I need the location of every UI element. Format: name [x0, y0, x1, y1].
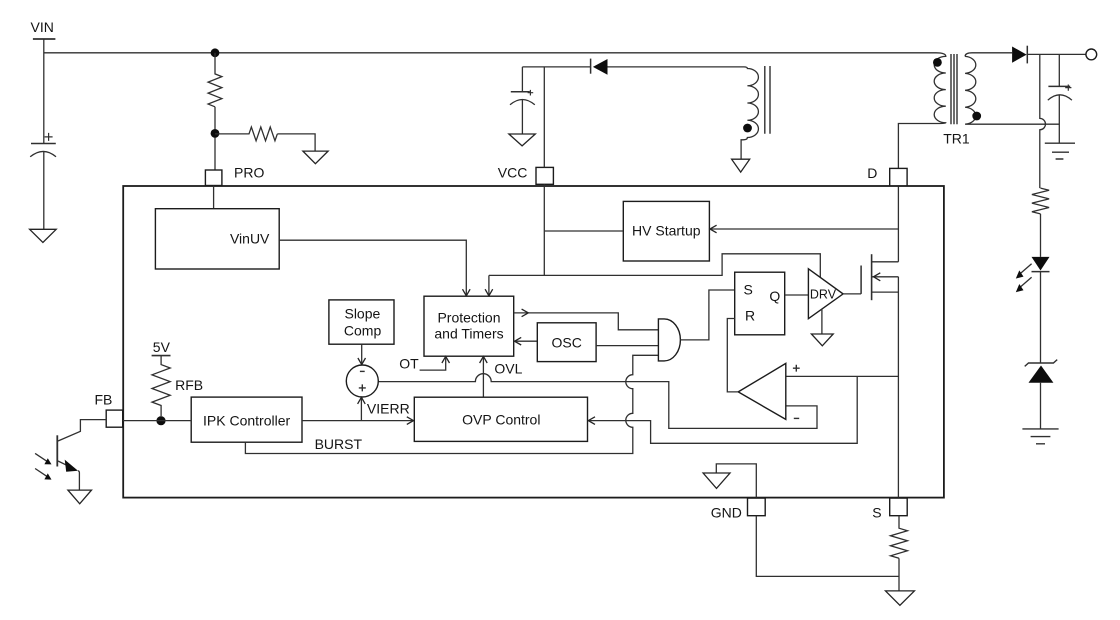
diode D4 zener [1025, 360, 1058, 383]
svg-text:Protection: Protection [437, 310, 500, 326]
wire drain riser to D pin [897, 186, 899, 262]
junction PRO node [211, 129, 220, 138]
LED D3 optocoupler emitter [1016, 257, 1050, 292]
resistor R1 (VIN divider upper) [208, 53, 222, 107]
wire OSC to Protection (arrow) [515, 337, 538, 345]
block Slope Comp [329, 300, 394, 344]
svg-text:R: R [745, 307, 755, 323]
wire VIN terminal to capacitor [43, 39, 45, 144]
svg-text:RFB: RFB [175, 377, 203, 393]
svg-text:5V: 5V [153, 339, 171, 355]
capacitor C1 input bulk (polarized) [30, 133, 56, 157]
node 5V terminal [152, 339, 171, 355]
comparator U4 [738, 363, 800, 419]
core aux transformer [765, 66, 770, 134]
core TR1 [951, 54, 957, 124]
capacitor C3 output (polarized) [1048, 54, 1072, 100]
svg-text:S: S [744, 281, 753, 297]
wire LED to zener [1040, 272, 1042, 363]
svg-text:S: S [872, 505, 881, 521]
block VinUV U1 [155, 209, 279, 269]
pin D [867, 165, 907, 186]
diode D1 output rectifier [1012, 46, 1027, 64]
ground below aux winding [732, 159, 750, 172]
wire FB pin to IPK Controller [123, 420, 192, 422]
wire Q output to DRV [785, 294, 809, 296]
svg-text:GND: GND [711, 505, 742, 521]
ground internal GND [703, 473, 730, 488]
wire BURST from IPK to AND gate (two hops) [245, 355, 658, 453]
wire IPK Controller to OVP Control (arrow) [302, 417, 414, 425]
ground below Q2 [68, 490, 92, 504]
svg-text:OVL: OVL [494, 361, 522, 377]
block IPK Controller [191, 397, 302, 442]
wire VCC pin riser [543, 67, 545, 276]
wire comparator output to latch R input [727, 319, 737, 392]
earth ground below zener [1022, 429, 1058, 444]
summing junction circle [346, 365, 378, 397]
wire source riser to S pin [897, 277, 899, 498]
node VIERR (arrow into summing circle) [358, 397, 410, 420]
transistor Q1 MOSFET gate wire [843, 293, 861, 295]
light arrows into Q2 [35, 453, 51, 479]
svg-text:VinUV: VinUV [230, 230, 270, 246]
wire C2 to ground [521, 100, 523, 134]
wire VCC rail to Protection (arrow) [485, 275, 493, 295]
wire R4 to opto LED [1040, 214, 1042, 257]
wire diode to output terminal [1027, 53, 1086, 55]
wire C3 to earth ground [1058, 95, 1060, 143]
ground below C2 [509, 134, 535, 146]
transistor Q1 MOSFET [861, 254, 898, 300]
IC block boundary box [123, 186, 944, 498]
svg-text:VIN: VIN [31, 19, 54, 35]
wire C1 to ground [43, 152, 45, 230]
inductor aux winding TR1 bias [741, 67, 758, 159]
ground below DRV [811, 334, 833, 346]
capacitor C2 VCC (polarized) [510, 67, 535, 105]
wire DRV to ground [821, 309, 823, 334]
wire GND pin to sense resistor node [756, 516, 899, 577]
wire D line to HV Startup (arrow) [710, 225, 899, 233]
pin FB [95, 391, 123, 427]
svg-text:VCC: VCC [498, 164, 528, 180]
wire VinUV to Protection (arrow) [279, 240, 470, 296]
resistor R4 feedback [1032, 188, 1049, 214]
wire R2 to ground [277, 134, 315, 151]
wire summing output to comparator minus (hop over OVL) [378, 374, 817, 429]
pin S [872, 498, 907, 520]
transistor Q2 opto phototransistor [57, 435, 78, 472]
node OT input [399, 355, 449, 371]
wire diode to aux winding [608, 66, 745, 68]
svg-text:TR1: TR1 [943, 130, 970, 146]
wire current sense to comparator plus [786, 375, 899, 377]
node output terminal circle [1086, 49, 1097, 60]
svg-text:HV Startup: HV Startup [632, 222, 701, 238]
wire VCC internal rail to DRV [489, 254, 820, 277]
block OVP Control [414, 397, 587, 441]
diode D2 VCC rectifier [591, 59, 608, 75]
wire OSC to AND gate [596, 345, 658, 347]
wire output feedback branch (hop over secondary) [1040, 54, 1046, 188]
svg-text:D: D [867, 165, 877, 181]
wire VIN rail [44, 52, 936, 54]
pin VCC [498, 164, 554, 184]
wire FB to opto transistor collector [58, 420, 106, 441]
buffer DRV [808, 269, 843, 319]
wire Q2 emitter to ground [78, 471, 79, 490]
svg-text:OT: OT [399, 355, 419, 371]
wire R1 to PRO pin [214, 107, 216, 170]
ground below R2 [303, 151, 328, 164]
junction VIN rail node [211, 48, 220, 57]
block Protection and Timers [424, 296, 514, 356]
wire VCC riser to HV Startup [544, 230, 623, 232]
node VIN terminal [31, 19, 56, 39]
wire sense line to OVP Control right input (arrow) [588, 376, 857, 443]
resistor RFB [152, 356, 203, 416]
earth ground below C3 [1045, 143, 1075, 159]
svg-text:Comp: Comp [344, 323, 382, 339]
transformer TR1 secondary winding [965, 53, 1059, 124]
polarity dot TR1 primary [933, 58, 942, 67]
svg-text:Slope: Slope [344, 305, 380, 321]
wire VCC aux rail [522, 66, 590, 68]
wire AND output to latch S input [680, 290, 734, 340]
svg-text:DRV: DRV [810, 288, 837, 302]
wire internal GND to ground symbol [716, 464, 756, 498]
polarity dot aux winding [743, 124, 752, 133]
svg-text:FB: FB [95, 391, 113, 407]
wire Protection to AND gate top input (arrow) [514, 309, 659, 330]
resistor R3 sense [891, 516, 908, 559]
svg-text:VIERR: VIERR [367, 400, 410, 416]
wire zener to earth ground [1040, 383, 1042, 429]
svg-text:PRO: PRO [234, 165, 264, 181]
transformer TR1 primary winding [898, 53, 945, 169]
svg-text:IPK Controller: IPK Controller [203, 412, 290, 428]
polarity dot TR1 secondary [972, 112, 981, 121]
block HV Startup [623, 201, 709, 261]
wire Slope Comp to summing circle (arrow) [358, 344, 366, 364]
svg-text:OVP Control: OVP Control [462, 411, 540, 427]
resistor R2 (PRO to ground) [215, 127, 277, 141]
svg-text:and Timers: and Timers [434, 326, 503, 342]
node OVL riser (arrow into Protection) [480, 356, 523, 397]
wire PRO pin to VinUV [213, 186, 215, 209]
svg-text:Q: Q [769, 288, 780, 304]
block OSC [537, 323, 596, 362]
junction FB node [156, 416, 165, 425]
AND gate U2 [658, 319, 680, 361]
svg-text:BURST: BURST [315, 436, 363, 452]
svg-text:OSC: OSC [552, 334, 582, 350]
ground below C1 [30, 229, 57, 242]
pin GND [711, 498, 765, 520]
wire sense resistor to ground [898, 558, 900, 591]
ground below sense resistor [886, 591, 915, 605]
pin PRO [205, 165, 264, 186]
latch U3 SR [735, 272, 785, 335]
